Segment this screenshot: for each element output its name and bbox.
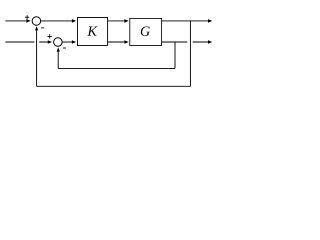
arrowhead into S2 from below [57, 47, 60, 51]
wire inner feedback rise to S2 [57, 51, 59, 68]
block K [78, 18, 108, 46]
arrowhead into summing junction S1 [26, 19, 30, 23]
wire input r2 (broken at crossing of S1 feedback vertical) [5, 41, 48, 43]
arrowhead into G top input [124, 19, 128, 23]
wire inner feedback vertical tap from y2 [174, 42, 176, 69]
arrowhead output y1 [208, 19, 212, 23]
summing junction S1 [32, 17, 41, 26]
arrowhead into K bottom input [72, 40, 76, 44]
wire S1 to K [41, 20, 73, 22]
wire input r1 [5, 20, 26, 22]
wire outer feedback horizontal [37, 85, 191, 87]
minus sign at S2 feedback [63, 47, 66, 49]
wire outer feedback vertical tap from y1 [189, 21, 191, 86]
block G [130, 18, 162, 45]
wire inner feedback horizontal [58, 68, 175, 70]
wire outer feedback rise to S1 [36, 30, 38, 86]
plus sign at S2 input [48, 34, 52, 38]
minus sign at S1 feedback [41, 27, 44, 29]
label G [141, 26, 150, 35]
plus sign at S1 input [25, 15, 29, 19]
arrowhead into G bottom input [124, 40, 128, 44]
arrowhead into K top input [72, 19, 76, 23]
wire G to output y2 (broken at crossing of outer feedback vertical) [162, 41, 209, 43]
wire G to output y1 [162, 20, 209, 22]
summing junction S2 [54, 38, 63, 47]
wire K to G top [108, 20, 125, 22]
arrowhead output y2 [208, 40, 212, 44]
arrowhead into summing junction S2 [48, 40, 52, 44]
label K [87, 27, 97, 36]
wire S2 to K [62, 41, 72, 43]
arrowhead into S1 from below [35, 26, 38, 30]
wire K to G bottom [108, 41, 125, 43]
